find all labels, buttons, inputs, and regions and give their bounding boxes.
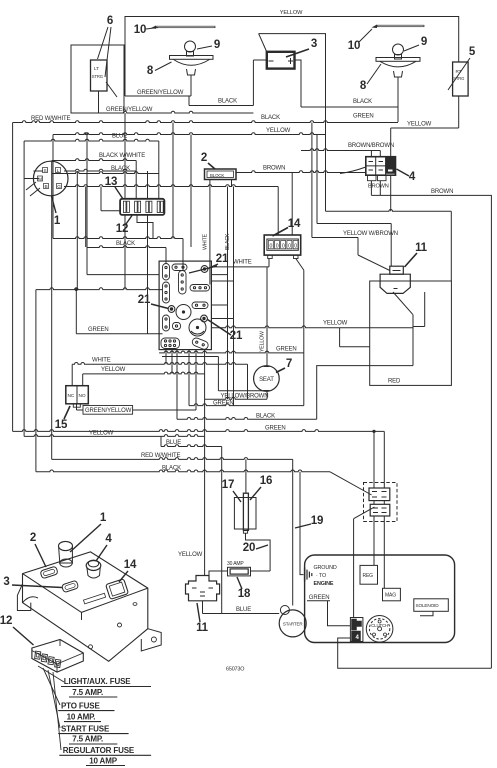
label 7.5 AMP 1 — [69, 688, 117, 697]
leader for 19 — [295, 524, 311, 528]
component connector 12 block — [120, 199, 164, 215]
wire fuse 18 right — [251, 570, 271, 572]
component fuse holder 16 — [234, 498, 256, 530]
svg-text:0: 0 — [270, 243, 273, 249]
svg-text:STRG: STRG — [92, 74, 103, 79]
component console rocker 3 — [61, 580, 78, 592]
wire ignition S-L to right — [64, 169, 136, 171]
svg-text:2: 2 — [201, 152, 207, 164]
svg-text:12: 12 — [0, 615, 12, 627]
svg-text:4: 4 — [409, 171, 416, 183]
wire left vertical 1 — [12, 123, 14, 432]
wire fuse leader 1 — [38, 666, 64, 682]
svg-text:RED: RED — [388, 379, 401, 385]
svg-text:BLACK: BLACK — [218, 99, 237, 105]
leader for 8 right — [367, 64, 381, 84]
label RED W/WHITE lower — [141, 453, 180, 459]
wire hour meter feeds — [278, 173, 292, 236]
label LIGHT/AUX FUSE — [61, 677, 151, 687]
label 14 console — [124, 559, 137, 571]
label YELLOW at plug — [178, 552, 203, 558]
component console top edge — [23, 574, 148, 620]
leader for 14 hour meter — [273, 228, 289, 237]
svg-text:GREEN: GREEN — [353, 114, 374, 120]
wire dashed feeds — [374, 431, 384, 488]
wire blue top bus — [24, 139, 159, 141]
svg-text:START FUSE: START FUSE — [61, 724, 110, 733]
svg-text:11: 11 — [415, 242, 428, 254]
svg-text:SEAT: SEAT — [259, 377, 274, 383]
leader for 16 — [250, 487, 261, 500]
leader for 1 ignition — [52, 196, 57, 213]
label 14 hour meter — [288, 218, 301, 230]
leader for 4 connector — [397, 169, 410, 176]
leader for 12 console — [13, 627, 34, 645]
svg-text:S: S — [43, 168, 46, 174]
leader for 9 right — [404, 45, 419, 51]
wire red w/white lower bus — [52, 458, 293, 460]
node GREEN/YELLOW label lower — [106, 107, 153, 113]
svg-text:13: 13 — [105, 176, 118, 188]
wire left lamp stem — [189, 75, 191, 106]
component RT strobe box — [453, 62, 469, 96]
wire yellow relay bus — [211, 326, 413, 328]
label GREEN right — [353, 114, 374, 120]
wire fuse leader 4 — [53, 672, 61, 750]
label RED W/WHITE top — [31, 116, 70, 122]
leader for 2 — [208, 163, 215, 169]
wire green mid bus — [13, 430, 385, 432]
label 13 — [105, 176, 118, 188]
leader for 2 console — [35, 544, 46, 567]
component panel small pill — [173, 323, 181, 330]
wire vertical x53 — [52, 135, 54, 239]
component clutch — [366, 616, 393, 643]
label 6 — [107, 15, 113, 27]
wire vertical x233 — [233, 187, 235, 406]
component fuse block 12 — [32, 640, 83, 673]
wire green seat run — [159, 351, 304, 353]
svg-text:4: 4 — [105, 533, 112, 545]
component console right flange — [141, 629, 161, 651]
svg-text:7.5 AMP.: 7.5 AMP. — [72, 688, 103, 697]
svg-text:1: 1 — [100, 512, 107, 524]
component relay 11 body — [380, 274, 410, 293]
label START FUSE — [58, 724, 128, 733]
component right lamp bulb — [393, 44, 404, 59]
svg-text:G: G — [57, 184, 61, 190]
wire fuse leader 2 — [43, 668, 60, 705]
svg-text:10 AMP: 10 AMP — [89, 756, 118, 765]
label BLACK right — [353, 99, 372, 105]
wire right lamp stem — [397, 77, 399, 122]
component left lamp mounting rod — [151, 26, 216, 29]
component panel bottom right pill — [191, 337, 209, 351]
component GREEN/YELLOW boxed label — [83, 406, 133, 415]
component connector 4 slots — [369, 162, 394, 171]
label YELLOW center bus — [266, 128, 291, 134]
component console key switch — [59, 541, 73, 567]
component REG box — [360, 565, 378, 584]
label 20 — [243, 542, 256, 554]
component upper connector — [369, 488, 390, 501]
svg-text:WHITE: WHITE — [203, 233, 209, 250]
svg-text:GREEN: GREEN — [276, 347, 297, 353]
svg-text:30 AMP: 30 AMP — [227, 561, 244, 567]
component fuse 17 — [243, 493, 248, 533]
label YELLOW right bus — [407, 122, 432, 128]
wire relay output diag — [393, 292, 413, 366]
label 11 plug — [196, 622, 209, 634]
svg-text:YELLOW: YELLOW — [178, 552, 203, 558]
wire module right comb — [211, 275, 233, 319]
svg-text:YELLOW/BROWN: YELLOW/BROWN — [221, 394, 269, 400]
label PTO FUSE — [58, 701, 114, 710]
leader for 14 console — [119, 571, 128, 582]
label terminal G — [57, 184, 62, 190]
label YELLOW lower left — [89, 431, 114, 437]
wire black left bus — [52, 172, 159, 174]
label YELLOW vertical seat — [260, 331, 266, 352]
svg-text:0: 0 — [282, 243, 285, 249]
wire meter right foot diag — [296, 259, 304, 353]
svg-text:14: 14 — [124, 559, 137, 571]
label WHITE nc-no — [92, 358, 111, 364]
wire black lamp to battery — [189, 105, 253, 107]
svg-text:LT: LT — [94, 66, 99, 71]
label NC NO text — [68, 393, 86, 399]
label WHITE left of meter — [233, 260, 252, 266]
label 3 — [311, 38, 317, 50]
label GREEN lower — [213, 401, 234, 407]
svg-text:BLACK W/WHITE: BLACK W/WHITE — [99, 153, 145, 159]
label 21 top — [216, 253, 229, 265]
component connector 4 black cell — [386, 158, 396, 174]
wire conn12 left feed — [101, 210, 120, 212]
component dashed box — [364, 483, 398, 522]
component relay 11 pins — [384, 281, 408, 289]
wire yellow nc-no bus — [83, 372, 205, 374]
svg-text:BLACK: BLACK — [261, 115, 280, 121]
svg-text:NC: NC — [68, 393, 75, 399]
svg-text:YELLOW: YELLOW — [101, 367, 126, 373]
svg-text:LIGHT/AUX. FUSE: LIGHT/AUX. FUSE — [64, 677, 131, 686]
svg-text:M: M — [38, 176, 42, 182]
label 21 right — [230, 330, 243, 342]
label 18 — [238, 588, 251, 600]
label terminal M — [38, 176, 43, 182]
component diode module — [205, 169, 237, 180]
svg-text:8: 8 — [360, 80, 367, 92]
wire LT strobe bottom — [98, 91, 100, 113]
wire brown/brown feed — [301, 149, 380, 157]
component right lamp housing — [376, 58, 420, 78]
component LT strobe box — [91, 60, 108, 91]
leader for 21 left — [151, 304, 169, 309]
svg-text:BROWN: BROWN — [263, 166, 285, 172]
svg-text:6: 6 — [107, 15, 113, 27]
svg-text:YELLOW: YELLOW — [280, 10, 303, 16]
component plug 11 — [186, 576, 220, 601]
svg-text:0: 0 — [288, 243, 291, 249]
leader for 11 relay — [405, 253, 418, 267]
wire conn4 bottom stubs — [371, 181, 380, 195]
wire clutch loop bottom — [338, 638, 492, 668]
component starter terminal — [280, 606, 289, 615]
leader for 21 right — [208, 320, 232, 336]
wire conn12 feeds top — [125, 113, 159, 199]
component left lamp housing — [170, 56, 214, 76]
svg-text:YELLOW: YELLOW — [266, 128, 291, 134]
svg-text:REGULATOR FUSE: REGULATOR FUSE — [63, 746, 135, 755]
node terminal dot left — [168, 306, 175, 313]
svg-text:GREEN: GREEN — [309, 595, 330, 601]
wire vertical x76 — [75, 290, 77, 334]
component clutch connector — [350, 618, 363, 642]
svg-text:BLACK: BLACK — [353, 99, 372, 105]
label 10 left — [134, 24, 147, 36]
wire bus y274 — [87, 274, 159, 276]
component relay mounting box — [370, 281, 452, 385]
label 7.5 AMP 2 — [69, 735, 117, 744]
component panel rotary circle — [176, 305, 191, 320]
wire red w/white to starter — [292, 459, 294, 605]
wire green to relay area — [303, 353, 305, 406]
label 8 right — [360, 80, 367, 92]
wire seat feed vertical — [266, 267, 268, 366]
leader for 15 — [64, 406, 70, 419]
wire bus y238 — [53, 237, 183, 239]
component console body — [23, 552, 148, 661]
component plug 11 pins — [192, 588, 213, 596]
wire panel top feeds — [166, 239, 183, 271]
svg-text:21: 21 — [138, 294, 151, 306]
component interlock panel box — [159, 261, 211, 350]
wire relay tab feed — [390, 224, 392, 267]
svg-text:YELLOW: YELLOW — [407, 122, 432, 128]
svg-text:YELLOW: YELLOW — [323, 321, 348, 327]
wire module out 2 — [171, 350, 173, 374]
component NC NO switch — [66, 386, 89, 407]
label BLACK above panel — [116, 241, 135, 247]
wire right bus y211 — [326, 209, 452, 211]
label 19 — [311, 515, 324, 527]
component MAG box — [383, 588, 401, 601]
label 9 right — [421, 36, 427, 48]
wire vertical x317 — [316, 135, 318, 224]
leader for 10 left — [146, 28, 158, 30]
label BLACK bottom — [162, 466, 181, 472]
wire seat bottom — [162, 357, 267, 400]
component fuse 18 — [228, 567, 251, 576]
leader for 13 — [115, 187, 123, 199]
wire fuse leader 3 — [48, 670, 60, 728]
wire battery positive — [295, 60, 302, 107]
label BROWN center — [263, 166, 285, 172]
wire vertical x173 — [172, 123, 174, 239]
component starter motor — [279, 610, 306, 637]
wire yellow/brown bus — [205, 397, 267, 399]
svg-text:10 AMP.: 10 AMP. — [67, 713, 96, 722]
label 1 ignition — [54, 215, 61, 227]
label 4 connector — [409, 171, 416, 183]
svg-text:GREEN: GREEN — [265, 426, 286, 432]
label 10 AMP 2 — [86, 756, 125, 765]
wire brown right bus — [371, 195, 491, 668]
label STARTER text — [283, 622, 303, 627]
label BROWN below conn4 — [368, 184, 389, 190]
label 7 seat — [286, 358, 292, 370]
label 12 console — [0, 615, 12, 627]
leader for 12 — [126, 216, 132, 225]
label 17 — [222, 479, 235, 491]
wire ignition G to right — [64, 185, 278, 187]
component console left foot — [17, 584, 38, 611]
svg-text:SOLENOID: SOLENOID — [416, 603, 440, 608]
svg-text:BLOCK: BLOCK — [210, 173, 224, 178]
wire right bus y237 — [312, 237, 358, 239]
wire left vertical 2 — [23, 141, 25, 436]
component ground symbol — [305, 568, 312, 582]
svg-text:10: 10 — [348, 40, 361, 52]
wire vertical x311 — [311, 123, 313, 238]
svg-text:8: 8 — [147, 65, 154, 77]
wire vertical x85 — [85, 187, 87, 248]
component fuse block slots — [34, 651, 62, 667]
wire black diag to connector — [330, 472, 372, 495]
label BLACK left lamp — [218, 99, 237, 105]
component hour meter box — [264, 235, 301, 255]
svg-text:5: 5 — [469, 46, 476, 58]
label 2 console — [30, 532, 36, 544]
wire stub y346 — [340, 328, 370, 347]
wire black right run — [301, 106, 398, 108]
wire black ground vertical — [300, 472, 304, 575]
svg-text:YELLOW: YELLOW — [89, 431, 114, 437]
wire left vertical 5 — [51, 161, 53, 460]
wire module out 4 — [188, 350, 190, 406]
label REGULATOR FUSE — [59, 746, 151, 755]
component panel pill P2 — [163, 282, 170, 303]
wire blue vertical — [221, 447, 223, 614]
svg-text:0: 0 — [276, 243, 279, 249]
svg-text:15: 15 — [55, 419, 68, 431]
svg-text:20: 20 — [243, 542, 256, 554]
svg-text:10: 10 — [134, 24, 147, 36]
svg-text:GREEN/YELLOW: GREEN/YELLOW — [106, 107, 153, 113]
wire yellow lower bus — [24, 435, 205, 437]
svg-text:3: 3 — [311, 38, 317, 50]
leader for 3 — [286, 49, 309, 57]
label terminal S — [43, 168, 48, 174]
component panel pill P5 — [179, 271, 187, 295]
label 5 — [469, 46, 476, 58]
wire black bottom bus — [36, 470, 330, 472]
svg-text:17: 17 — [222, 479, 235, 491]
svg-text:GREEN/YELLOW: GREEN/YELLOW — [137, 90, 184, 96]
label BLACK W/WHITE — [99, 153, 145, 159]
label BLUE top — [112, 134, 127, 140]
label CLUTCH text — [371, 623, 388, 628]
svg-text:BROWN: BROWN — [431, 189, 453, 195]
wire vertical x101 — [100, 187, 102, 211]
svg-text:STARTER: STARTER — [283, 622, 303, 627]
label GREEN seat — [276, 347, 297, 353]
component hour meter digits — [268, 241, 298, 250]
wire vertical x227 — [227, 187, 229, 400]
svg-text:12: 12 — [116, 223, 129, 235]
wire green lower bus — [189, 404, 304, 406]
leader for 9 left — [197, 46, 212, 49]
leader for 17 — [233, 491, 241, 502]
component battery — [267, 52, 295, 69]
wire diode module outputs — [210, 180, 232, 285]
component left lamp bulb — [185, 41, 196, 56]
wire white nc-no bus — [72, 362, 247, 399]
wire fuse bottom out — [246, 533, 271, 571]
svg-text:16: 16 — [260, 475, 273, 487]
wire lower conn outputs — [374, 516, 384, 588]
svg-text:BLACK: BLACK — [256, 414, 275, 420]
label RT STRG text — [453, 69, 464, 81]
component hour meter feet — [268, 255, 298, 258]
svg-text:YELLOW W/BROWN: YELLOW W/BROWN — [343, 231, 398, 237]
component panel lower circle — [189, 319, 206, 336]
label YELLOW top — [280, 10, 303, 16]
node terminal dot right — [201, 315, 208, 322]
label YELLOW nc-no — [101, 367, 126, 373]
label 65073O — [226, 667, 244, 673]
svg-text:WHITE: WHITE — [92, 358, 111, 364]
label GROUND TO ENGINE — [314, 565, 337, 587]
wire plug to fuse — [209, 571, 228, 576]
label GREEN mid — [265, 426, 286, 432]
svg-text:BLUE: BLUE — [236, 607, 251, 613]
wire conn4 diagonal feed — [340, 167, 366, 174]
svg-text:NO: NO — [79, 393, 86, 399]
label SEAT text — [259, 377, 274, 383]
label 3 console — [3, 576, 9, 588]
svg-text:3: 3 — [3, 576, 9, 588]
wire yellow center bus — [53, 133, 326, 135]
wire black w/white bus — [52, 159, 137, 161]
wire vertical x87 — [86, 135, 88, 275]
component panel pill P6 — [190, 285, 210, 292]
wire blue to starter — [203, 601, 280, 614]
svg-text:CLUTCH: CLUTCH — [371, 623, 388, 628]
svg-text:9: 9 — [214, 39, 220, 51]
wire conn4 right vertical — [390, 128, 392, 211]
leader for 10 right — [359, 29, 372, 42]
component console rocker 2 — [40, 566, 58, 579]
wire red w/white bus — [13, 121, 398, 123]
component panel pill P7 — [192, 302, 208, 309]
svg-text:11: 11 — [196, 622, 209, 634]
label GREEN into panel — [88, 327, 109, 333]
label 15 — [55, 419, 68, 431]
leader for 8 left — [155, 62, 172, 71]
label BROWN/BROWN — [348, 143, 394, 149]
svg-text:1: 1 — [54, 215, 61, 227]
wire conn12 bottom jog — [137, 215, 153, 239]
wire RT strobe bottom — [458, 96, 460, 128]
wire module out 3 — [176, 350, 178, 420]
label 9 left — [214, 39, 220, 51]
label BLUE at starter — [236, 607, 251, 613]
node junction dot green — [372, 430, 375, 433]
wire green to clutch — [328, 601, 351, 626]
svg-text:GROUND: GROUND — [314, 565, 337, 571]
